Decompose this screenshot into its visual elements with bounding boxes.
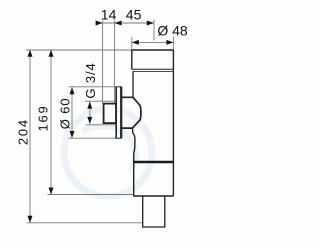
dimension line 204 xyxy=(29,50,31,223)
rosette right edge xyxy=(120,87,122,139)
pipe right edge xyxy=(172,50,174,196)
outlet pipe xyxy=(143,196,165,227)
dimension line D60 xyxy=(71,87,73,138)
arrow G3/4 top xyxy=(87,102,92,109)
pipe top edge xyxy=(132,49,174,51)
rosette top edge xyxy=(116,86,122,88)
valve body outline (dark) xyxy=(104,50,174,227)
arrow 169 bottom xyxy=(49,188,54,195)
extension line D60 top xyxy=(69,86,117,88)
arrow 14 left xyxy=(96,21,103,26)
arrow D48 left xyxy=(132,40,139,45)
arrow 204 bottom xyxy=(28,216,33,223)
tube left edge upper xyxy=(132,72,134,98)
dimension line D48 xyxy=(132,41,174,43)
inlet boss dome xyxy=(122,97,141,128)
rosette bottom edge xyxy=(116,137,122,139)
svg-text:14: 14 xyxy=(101,7,117,23)
extension line 14 right xyxy=(114,21,116,104)
body junction bold line xyxy=(134,161,174,163)
watermark logo xyxy=(64,109,152,197)
G3/4 stub xyxy=(104,104,116,124)
arrow 45 right xyxy=(147,21,154,26)
rosette left edge xyxy=(115,87,117,139)
svg-text:204: 204 xyxy=(16,118,31,145)
joint band lower line xyxy=(133,71,174,73)
extension line 204 bottom xyxy=(27,222,143,224)
dimension line G3/4 xyxy=(89,101,91,124)
dimension/extension lines (thin gray) xyxy=(26,20,173,223)
dimension line 14/45 xyxy=(98,22,154,24)
centerline pipe xyxy=(153,20,155,41)
arrow 14 right xyxy=(115,21,122,26)
svg-text:Ø 60: Ø 60 xyxy=(57,98,72,130)
extension line D48 left xyxy=(131,37,133,50)
svg-text:Ø 48: Ø 48 xyxy=(157,23,188,39)
dimension line 169 xyxy=(50,50,52,195)
arrow 169 top xyxy=(49,50,54,57)
svg-text:G 3/4: G 3/4 xyxy=(83,62,98,98)
body bottom edge xyxy=(133,195,173,197)
arrow D60 top xyxy=(70,87,75,94)
arrow D60 bottom xyxy=(70,131,75,138)
arrowheads xyxy=(28,21,174,223)
extension line wall 14 left xyxy=(102,21,104,104)
extension line G3/4 top xyxy=(85,100,116,102)
svg-text:169: 169 xyxy=(36,104,51,131)
tube left edge lower neck xyxy=(132,128,135,162)
svg-text:45: 45 xyxy=(126,7,142,23)
extension line 169 bottom xyxy=(48,194,134,196)
arrow D48 right xyxy=(166,40,173,45)
arrow G3/4 bottom xyxy=(87,117,92,124)
sleeve left edge xyxy=(131,50,133,69)
extension line G3/4 bottom xyxy=(86,124,116,126)
extension line D48 right xyxy=(172,37,174,50)
extension line D60 bottom xyxy=(69,137,117,139)
sleeve bottom joint xyxy=(132,68,174,70)
arrow 204 top xyxy=(28,50,33,57)
top reference extension line xyxy=(26,49,132,51)
lower body left edge xyxy=(133,162,135,196)
